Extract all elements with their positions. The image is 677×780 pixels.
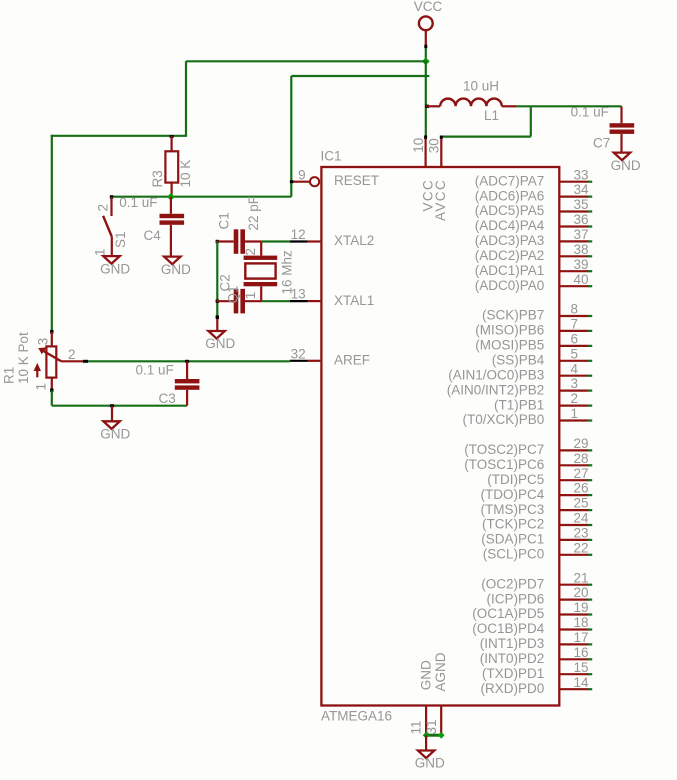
svg-text:40: 40 xyxy=(574,272,589,287)
black tick L1 left tap xyxy=(425,105,429,108)
svg-text:27: 27 xyxy=(574,466,589,481)
wire xyxy=(261,240,290,242)
capacitor C3 xyxy=(136,361,200,406)
wire xyxy=(516,105,621,107)
svg-text:GND: GND xyxy=(161,262,191,277)
wire xyxy=(52,405,187,407)
svg-text:XTAL1: XTAL1 xyxy=(334,293,374,308)
wire xyxy=(51,135,53,332)
pin 33 (ADC7)PA7 xyxy=(475,167,592,188)
ground GND at S1 xyxy=(100,256,130,276)
pin 6 (MOSI)PB5 xyxy=(475,332,592,353)
pin name AGND xyxy=(433,652,448,691)
svg-text:GND: GND xyxy=(418,660,433,690)
pin 34 (ADC6)PA6 xyxy=(475,182,592,203)
svg-text:Q1: Q1 xyxy=(226,285,241,303)
svg-text:4: 4 xyxy=(571,361,579,376)
svg-text:26: 26 xyxy=(574,481,589,496)
svg-text:(OC1A)PD5: (OC1A)PD5 xyxy=(472,606,544,621)
pin 23 (SDA)PC1 xyxy=(481,526,592,547)
pin 19 (OC1A)PD5 xyxy=(472,600,592,621)
pin 4 (AIN1/OC0)PB3 xyxy=(448,361,592,382)
wire xyxy=(186,60,426,62)
svg-text:(SCK)PB7: (SCK)PB7 xyxy=(482,308,544,323)
pin 16 (INT0)PD2 xyxy=(480,645,592,666)
op-amp U1 IC1 ATMEGA16 body xyxy=(321,149,560,724)
svg-text:0.1 uF: 0.1 uF xyxy=(119,195,157,210)
capacitor C7 xyxy=(571,104,635,152)
svg-text:22 pF: 22 pF xyxy=(246,196,261,231)
svg-text:(MISO)PB6: (MISO)PB6 xyxy=(475,323,544,338)
pin 8 (SCK)PB7 xyxy=(482,302,592,323)
svg-text:24: 24 xyxy=(574,511,590,526)
svg-text:(INT1)PD3: (INT1)PD3 xyxy=(480,636,545,651)
svg-text:10: 10 xyxy=(411,138,426,153)
svg-text:(SCL)PC0: (SCL)PC0 xyxy=(483,547,545,562)
svg-text:GND: GND xyxy=(100,261,130,276)
pin 13 XTAL1 xyxy=(290,287,374,308)
svg-text:1: 1 xyxy=(93,248,108,256)
svg-text:28: 28 xyxy=(574,451,589,466)
pin name GND xyxy=(418,660,433,690)
pin 21 (OC2)PD7 xyxy=(481,570,592,591)
svg-text:(ADC3)PA3: (ADC3)PA3 xyxy=(475,233,545,248)
switch S1 xyxy=(93,197,129,256)
svg-text:1: 1 xyxy=(34,383,49,391)
pin name VCC xyxy=(420,179,435,212)
black tick C3 top tap xyxy=(185,360,189,363)
svg-text:6: 6 xyxy=(571,332,579,347)
svg-text:(ADC7)PA7: (ADC7)PA7 xyxy=(475,173,545,188)
svg-text:AVCC: AVCC xyxy=(433,179,448,221)
svg-text:C1: C1 xyxy=(217,212,232,229)
svg-text:AREF: AREF xyxy=(334,353,370,368)
svg-text:2: 2 xyxy=(243,248,258,256)
wire xyxy=(261,300,290,302)
power symbol VCC xyxy=(414,0,443,45)
svg-text:(MOSI)PB5: (MOSI)PB5 xyxy=(475,338,544,353)
pin 24 (TCK)PC2 xyxy=(482,511,592,532)
pin name AVCC xyxy=(433,179,448,221)
svg-text:(TXD)PD1: (TXD)PD1 xyxy=(482,666,544,681)
svg-text:30: 30 xyxy=(426,138,441,153)
black tick VCC lead xyxy=(424,45,427,48)
pin 29 (TOSC2)PC7 xyxy=(464,436,592,457)
svg-text:AGND: AGND xyxy=(433,652,448,691)
node pin31 junction xyxy=(438,732,445,739)
svg-text:R1: R1 xyxy=(2,367,17,384)
svg-text:VCC: VCC xyxy=(414,0,443,14)
black tick S1 corner xyxy=(110,195,113,198)
svg-text:(TOSC2)PC7: (TOSC2)PC7 xyxy=(464,442,544,457)
capacitor C1 xyxy=(217,196,262,254)
black tick C2 left tap xyxy=(216,300,219,303)
svg-text:(ADC0)PA0: (ADC0)PA0 xyxy=(475,278,545,293)
pin 7 (MISO)PB6 xyxy=(475,317,592,338)
pin 28 (TOSC1)PC6 xyxy=(464,451,592,472)
svg-text:(ADC5)PA5: (ADC5)PA5 xyxy=(475,203,545,218)
pin 9 RESET with inversion bubble xyxy=(290,168,379,189)
svg-text:(T1)PB1: (T1)PB1 xyxy=(494,397,544,412)
svg-text:(ADC6)PA6: (ADC6)PA6 xyxy=(475,188,545,203)
ground GND at crystal caps xyxy=(205,319,235,351)
black tick GND tap on bottom wire xyxy=(110,404,114,407)
svg-text:(SDA)PC1: (SDA)PC1 xyxy=(481,532,544,547)
svg-text:(OC1B)PD4: (OC1B)PD4 xyxy=(472,621,545,636)
wire xyxy=(425,61,427,136)
svg-text:(INT0)PD2: (INT0)PD2 xyxy=(480,651,545,666)
svg-text:3: 3 xyxy=(36,338,51,346)
ground GND below pot wire xyxy=(100,406,130,442)
svg-text:2: 2 xyxy=(96,204,111,212)
pin 5 (SS)PB4 xyxy=(492,346,592,367)
svg-text:21: 21 xyxy=(574,570,589,585)
svg-text:RESET: RESET xyxy=(334,173,379,188)
pin 38 (ADC2)PA2 xyxy=(475,242,592,263)
pin 22 (SCL)PC0 xyxy=(483,540,592,561)
svg-text:1: 1 xyxy=(571,406,579,421)
svg-text:R3: R3 xyxy=(150,170,165,187)
black tick R1 top xyxy=(50,330,53,334)
pin 20 (ICP)PD6 xyxy=(487,585,593,606)
pin 40 (ADC0)PA0 xyxy=(475,272,592,293)
svg-text:0.1 uF: 0.1 uF xyxy=(136,362,174,377)
wire xyxy=(88,360,290,362)
svg-text:XTAL2: XTAL2 xyxy=(334,233,374,248)
black tick wiper xyxy=(83,360,88,363)
svg-text:18: 18 xyxy=(574,615,589,630)
svg-text:ATMEGA16: ATMEGA16 xyxy=(321,709,392,724)
svg-text:11: 11 xyxy=(409,720,424,734)
svg-text:(TCK)PC2: (TCK)PC2 xyxy=(482,517,544,532)
svg-text:16: 16 xyxy=(574,645,589,660)
capacitor C2 xyxy=(217,274,262,313)
pin 31 AGND lead xyxy=(424,706,441,735)
svg-text:7: 7 xyxy=(571,317,579,332)
svg-text:10 K: 10 K xyxy=(178,160,193,188)
svg-text:32: 32 xyxy=(291,346,306,361)
svg-text:33: 33 xyxy=(574,167,589,182)
svg-text:29: 29 xyxy=(574,436,589,451)
svg-text:(TDI)PC5: (TDI)PC5 xyxy=(487,472,544,487)
node pin11 junction xyxy=(423,732,430,739)
wire xyxy=(425,48,427,62)
svg-text:20: 20 xyxy=(574,585,589,600)
svg-text:(RXD)PD0: (RXD)PD0 xyxy=(481,681,545,696)
pin 37 (ADC3)PA3 xyxy=(475,227,592,248)
inductor L1 xyxy=(426,79,517,124)
svg-text:10 uH: 10 uH xyxy=(463,79,499,94)
svg-text:C4: C4 xyxy=(144,228,162,243)
svg-text:L1: L1 xyxy=(484,108,499,123)
svg-text:C3: C3 xyxy=(159,391,176,406)
black tick R1 bottom xyxy=(50,389,53,393)
svg-text:9: 9 xyxy=(298,168,306,183)
svg-text:23: 23 xyxy=(574,526,589,541)
svg-text:3: 3 xyxy=(571,376,579,391)
svg-text:C7: C7 xyxy=(593,136,610,151)
wire xyxy=(61,360,83,362)
svg-text:13: 13 xyxy=(291,287,306,302)
svg-text:(TDO)PC4: (TDO)PC4 xyxy=(481,487,545,502)
svg-text:19: 19 xyxy=(574,600,589,615)
pin 39 (ADC1)PA1 xyxy=(475,257,592,278)
svg-text:1: 1 xyxy=(243,292,258,300)
pin 11 GND lead xyxy=(409,706,426,735)
pin 18 (OC1B)PD4 xyxy=(472,615,592,636)
ground GND at IC bottom xyxy=(415,735,445,771)
svg-text:15: 15 xyxy=(574,660,589,675)
svg-text:(TOSC1)PC6: (TOSC1)PC6 xyxy=(464,457,544,472)
wire xyxy=(426,734,441,737)
svg-text:38: 38 xyxy=(574,242,589,257)
svg-text:0.1 uF: 0.1 uF xyxy=(571,104,609,119)
svg-text:(AIN0/INT2)PB2: (AIN0/INT2)PB2 xyxy=(447,382,545,397)
svg-text:(OC2)PD7: (OC2)PD7 xyxy=(481,576,544,591)
pin 10 VCC lead xyxy=(411,136,427,167)
svg-text:GND: GND xyxy=(415,756,445,771)
pin 30 AVCC lead xyxy=(426,136,443,167)
svg-text:14: 14 xyxy=(574,675,590,690)
svg-text:2: 2 xyxy=(68,347,76,362)
pin 2 (T1)PB1 xyxy=(494,391,592,412)
svg-text:22: 22 xyxy=(574,540,589,555)
pin 15 (TXD)PD1 xyxy=(482,660,592,681)
svg-text:2: 2 xyxy=(571,391,579,406)
pin 26 (TDO)PC4 xyxy=(481,481,593,502)
wire xyxy=(185,61,187,136)
svg-text:GND: GND xyxy=(100,427,130,442)
pin 25 (TMS)PC3 xyxy=(481,496,593,517)
svg-text:34: 34 xyxy=(574,182,590,197)
potentiometer R1 xyxy=(2,332,76,391)
svg-text:(ADC2)PA2: (ADC2)PA2 xyxy=(475,248,545,263)
node R3/C4/RESET junction xyxy=(167,193,175,201)
svg-text:(ADC4)PA4: (ADC4)PA4 xyxy=(475,218,545,233)
capacitor C4 xyxy=(119,195,184,256)
svg-text:35: 35 xyxy=(574,197,589,212)
resistor R3 xyxy=(150,136,193,197)
svg-text:39: 39 xyxy=(574,257,589,272)
pin 35 (ADC5)PA5 xyxy=(475,197,592,218)
black tick C1 left corner xyxy=(216,240,219,243)
pin 14 (RXD)PD0 xyxy=(481,675,593,696)
svg-text:GND: GND xyxy=(611,158,641,173)
svg-text:(SS)PB4: (SS)PB4 xyxy=(492,353,545,368)
pin 36 (ADC4)PA4 xyxy=(475,212,592,233)
pin 32 AREF xyxy=(290,346,370,367)
wire xyxy=(290,76,292,197)
wire xyxy=(216,242,218,316)
ground GND at C7 xyxy=(611,153,641,173)
svg-text:25: 25 xyxy=(574,496,589,511)
wire xyxy=(441,136,531,138)
pin 27 (TDI)PC5 xyxy=(487,466,592,487)
svg-text:8: 8 xyxy=(571,302,579,317)
svg-text:IC1: IC1 xyxy=(321,149,342,164)
svg-text:12: 12 xyxy=(291,227,306,242)
black tick R3 top tap xyxy=(170,135,174,138)
svg-text:(AIN1/OC0)PB3: (AIN1/OC0)PB3 xyxy=(448,367,544,382)
wire xyxy=(112,196,292,198)
svg-text:37: 37 xyxy=(574,227,589,242)
svg-text:5: 5 xyxy=(571,346,579,361)
crystal Q1 xyxy=(226,242,295,304)
wire xyxy=(51,390,53,405)
svg-text:(ICP)PD6: (ICP)PD6 xyxy=(487,591,545,606)
node VCC junction xyxy=(422,57,430,65)
svg-text:10 K Pot: 10 K Pot xyxy=(16,332,31,384)
wire xyxy=(291,75,429,77)
pin 12 XTAL2 xyxy=(290,227,374,248)
black tick crystal gnd xyxy=(216,315,219,319)
pin 17 (INT1)PD3 xyxy=(480,630,592,651)
wire xyxy=(530,106,532,136)
pin 3 (AIN0/INT2)PB2 xyxy=(447,376,592,397)
svg-text:36: 36 xyxy=(574,212,589,227)
pin 1 (T0/XCK)PB0 xyxy=(463,406,593,427)
ground GND at C4 xyxy=(161,257,191,277)
svg-text:(ADC1)PA1: (ADC1)PA1 xyxy=(475,263,545,278)
svg-text:(T0/XCK)PB0: (T0/XCK)PB0 xyxy=(463,412,545,427)
wire xyxy=(51,135,187,137)
svg-text:S1: S1 xyxy=(113,231,128,248)
svg-text:17: 17 xyxy=(574,630,589,645)
svg-text:GND: GND xyxy=(205,336,235,351)
svg-text:(TMS)PC3: (TMS)PC3 xyxy=(481,502,545,517)
